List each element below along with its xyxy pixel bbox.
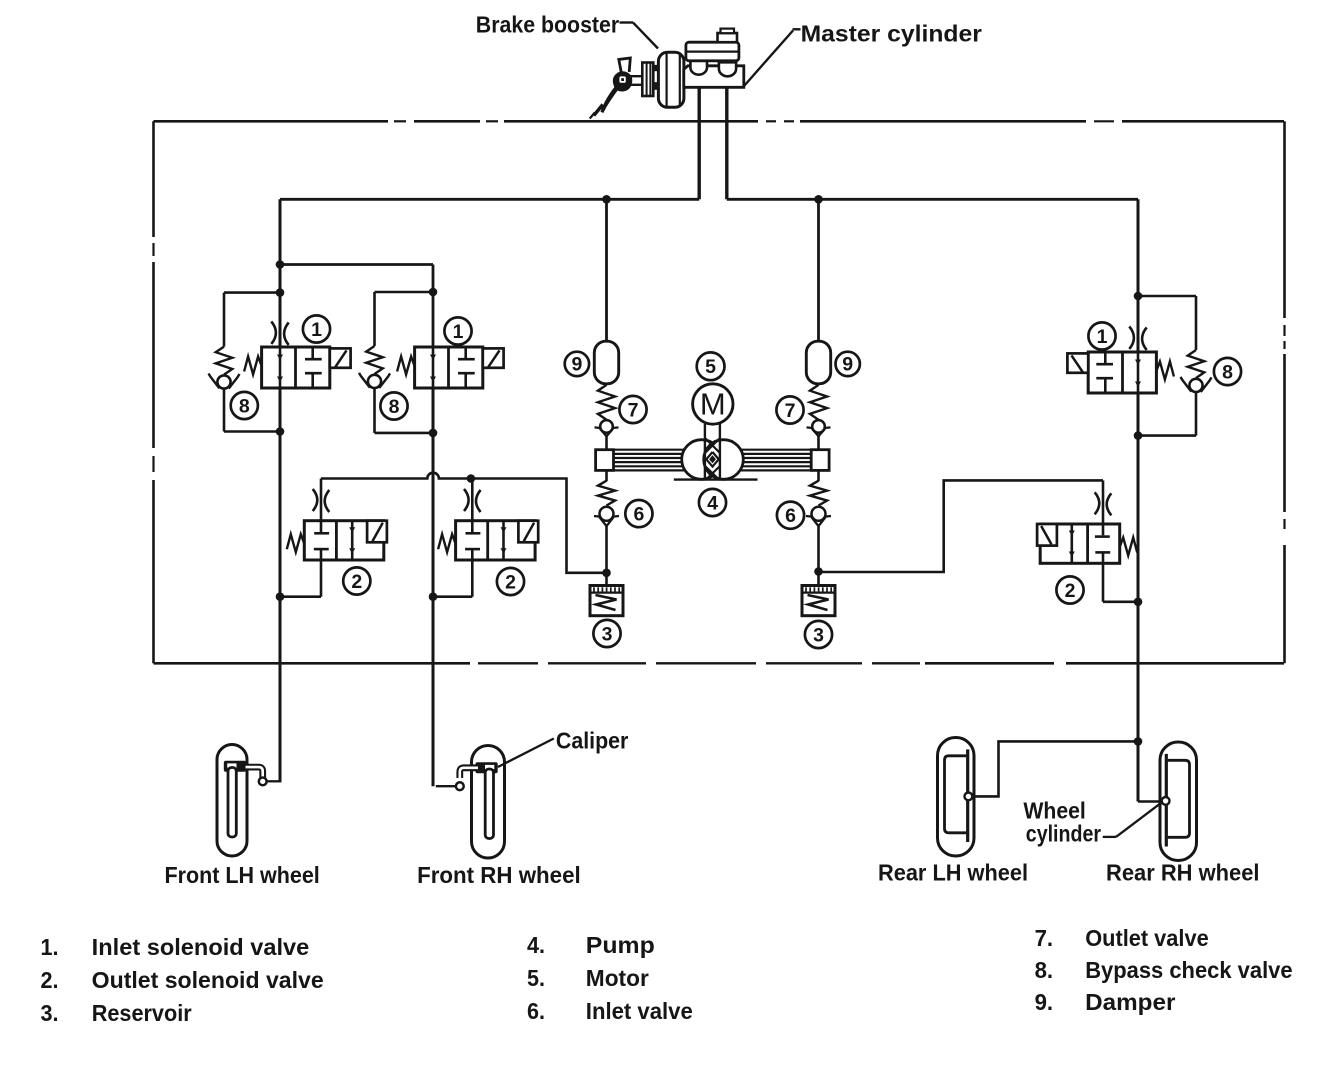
svg-text:3: 3 (602, 623, 613, 645)
rear RH wheel + wheel cylinder (1160, 742, 1197, 861)
label 1 (front RH) (444, 317, 471, 344)
wire: front LH main line (L1) (279, 199, 282, 782)
inlet solenoid valve 1 (rear) (1067, 327, 1174, 394)
legend 6: Inlet valve (527, 998, 693, 1024)
svg-text:4.: 4. (527, 932, 545, 958)
label 1 (front LH) (303, 315, 330, 342)
motor 5 (M circle) (693, 384, 733, 424)
label 9 (right) (836, 352, 860, 376)
wire: rear main line (R1) (1137, 199, 1140, 801)
label 9 (left) (565, 352, 589, 376)
junction: outlet valve drain (rear) (1134, 598, 1143, 607)
rear LH wheel + wheel cylinder (938, 738, 975, 857)
legend 7: Outlet valve (1035, 925, 1209, 951)
wire: branch to front RH valve (280, 265, 433, 348)
junction: rear line to LH wheel (1134, 737, 1143, 746)
svg-text:cylinder: cylinder (1026, 820, 1101, 846)
junction: L1 branch node (276, 260, 285, 269)
svg-text:Damper: Damper (1085, 989, 1175, 1015)
junction: check valve branch bottom (rear) (1134, 431, 1143, 440)
legend 2: Outlet solenoid valve (41, 967, 324, 993)
svg-text:2: 2 (351, 571, 362, 593)
label 7 (right) (776, 396, 803, 423)
label 5 (697, 352, 725, 380)
junction: outlet valve drain (front RH) (429, 592, 438, 601)
label: Caliper + leader line (498, 728, 629, 768)
svg-text:2.: 2. (41, 967, 59, 993)
svg-text:Master cylinder: Master cylinder (801, 21, 982, 47)
junction: check valve branch bottom (front RH) (429, 429, 438, 438)
label 8 (front LH) (231, 392, 258, 419)
svg-text:Reservoir: Reservoir (92, 1000, 192, 1026)
svg-text:9.: 9. (1035, 989, 1054, 1015)
wire: rear distribution line (y199 right) (727, 198, 1138, 201)
label: Front LH wheel (165, 862, 320, 888)
junction: damper column left on front line (602, 195, 611, 204)
svg-text:6: 6 (633, 503, 644, 525)
svg-text:Motor: Motor (586, 965, 649, 991)
svg-text:6.: 6. (527, 998, 545, 1024)
label 6 (right) (777, 502, 804, 529)
label: Front RH wheel (417, 862, 581, 888)
label 8 (front RH) (380, 392, 407, 419)
pipe: rear line to RH wheel (1138, 800, 1162, 803)
pump 4 (twin circles, eccentric, bar) (596, 424, 830, 480)
svg-text:Brake booster: Brake booster (476, 11, 619, 37)
label: Brake booster + leader line (476, 11, 658, 48)
svg-text:1: 1 (311, 319, 322, 341)
pipe: master cylinder primary outlet (698, 88, 701, 200)
label 7 (left) (619, 396, 646, 423)
svg-text:5: 5 (705, 356, 716, 378)
brake booster U (vacuum booster drawing) (642, 52, 684, 107)
svg-text:8.: 8. (1035, 957, 1054, 983)
wire: front outlet valves to reservoir (321, 473, 607, 573)
svg-text:4: 4 (707, 492, 718, 514)
junction: outlet valve drain (front LH) (276, 592, 285, 601)
junction: check valve branch top (front LH) (276, 288, 285, 297)
label 2 (front LH) (343, 567, 370, 594)
svg-text:Inlet solenoid valve: Inlet solenoid valve (92, 934, 310, 960)
hydraulic unit boundary (154, 121, 1285, 663)
label 1 (rear) (1088, 322, 1115, 349)
outlet solenoid valve 2 (front LH) (280, 479, 387, 597)
svg-text:7: 7 (628, 399, 639, 421)
label: Wheel cylinder + leader line (1023, 797, 1162, 846)
junction: front RH outlet on reservoir wire (467, 474, 476, 483)
front LH wheel + caliper (217, 745, 267, 857)
label 4 (699, 489, 726, 516)
svg-text:Caliper: Caliper (556, 728, 629, 754)
svg-text:Pump: Pump (586, 932, 655, 958)
svg-text:Rear RH wheel: Rear RH wheel (1106, 860, 1260, 886)
reservoir 3 (left) (590, 573, 623, 616)
junction: damper column right on rear line (814, 195, 823, 204)
legend 3: Reservoir (41, 1000, 192, 1026)
svg-text:M: M (700, 387, 726, 422)
label 2 (rear) (1056, 576, 1083, 603)
label 3 (right) (805, 621, 832, 648)
junction: check valve branch top (rear) (1134, 292, 1143, 301)
damper 9 (right column) (806, 199, 830, 449)
inlet valve 6 (left column) (594, 470, 619, 572)
legend 9: Damper (1035, 989, 1176, 1015)
svg-text:Front LH wheel: Front LH wheel (165, 862, 320, 888)
wire: front RH main line (L2) (432, 388, 435, 786)
label 6 (left) (625, 500, 652, 527)
legend 8: Bypass check valve (1035, 957, 1293, 983)
bypass check valve 8 (front LH) (209, 293, 281, 432)
bypass check valve 8 (front RH) (359, 292, 433, 433)
junction: reservoir node (left) (602, 569, 611, 578)
svg-text:1: 1 (1097, 326, 1108, 348)
junction: reservoir node (right) (814, 567, 823, 576)
label: Master cylinder + leader line (744, 21, 982, 87)
legend 4: Pump (527, 932, 655, 958)
svg-text:2: 2 (1065, 580, 1076, 602)
svg-text:8: 8 (1222, 361, 1233, 383)
label: Rear LH wheel (878, 860, 1028, 886)
svg-text:5.: 5. (527, 965, 545, 991)
svg-text:3.: 3. (41, 1000, 59, 1026)
wire: rear outlet valve to reservoir (819, 480, 1104, 572)
label 8 (rear) (1214, 358, 1241, 385)
inlet solenoid valve 1 (front LH) (244, 322, 350, 389)
svg-text:8: 8 (389, 396, 400, 418)
svg-text:Rear LH wheel: Rear LH wheel (878, 860, 1028, 886)
master cylinder (reservoir, cap, outlet ports) (684, 29, 744, 88)
legend 1: Inlet solenoid valve (41, 934, 310, 960)
svg-text:Inlet valve: Inlet valve (586, 998, 693, 1024)
junction: check valve branch bottom (front LH) (276, 427, 285, 436)
inlet valve 6 (right column) (806, 470, 831, 571)
outlet solenoid valve 2 (rear, mirrored) (1037, 480, 1138, 601)
svg-text:7: 7 (785, 400, 796, 422)
pipe: caliper to line (front RH) (436, 785, 456, 787)
label 2 (front RH) (497, 568, 524, 595)
bypass check valve 8 (rear) (1138, 296, 1212, 436)
pipe: rear LH wheel to rear line (973, 741, 1139, 796)
junction: check valve branch top (front RH) (429, 288, 438, 297)
svg-text:9: 9 (571, 354, 582, 376)
svg-text:Outlet solenoid valve: Outlet solenoid valve (92, 967, 324, 993)
svg-text:7.: 7. (1035, 925, 1054, 951)
reservoir 3 (right) (802, 573, 835, 616)
svg-text:Bypass check valve: Bypass check valve (1085, 957, 1292, 983)
wire: front distribution line (y199 left) (280, 198, 699, 201)
damper 9 (left column) (594, 199, 618, 449)
outlet solenoid valve 2 (front RH) (433, 479, 538, 597)
svg-text:6: 6 (785, 505, 796, 527)
pipe: caliper to line (front LH) (267, 780, 282, 782)
brake pedal (590, 58, 646, 119)
label: Rear RH wheel (1106, 860, 1260, 886)
svg-text:3: 3 (813, 624, 824, 646)
pipe: master cylinder secondary outlet (725, 88, 728, 200)
svg-text:8: 8 (239, 395, 250, 417)
svg-text:Front RH wheel: Front RH wheel (417, 862, 581, 888)
svg-text:9: 9 (842, 354, 853, 376)
svg-text:1.: 1. (41, 934, 59, 960)
inlet solenoid valve 1 (front RH) (397, 347, 503, 388)
label 3 (left) (593, 620, 620, 647)
svg-text:1: 1 (453, 321, 464, 343)
svg-text:Outlet valve: Outlet valve (1085, 925, 1209, 951)
legend 5: Motor (527, 965, 649, 991)
svg-text:2: 2 (505, 571, 516, 593)
front RH wheel + caliper (456, 746, 505, 859)
